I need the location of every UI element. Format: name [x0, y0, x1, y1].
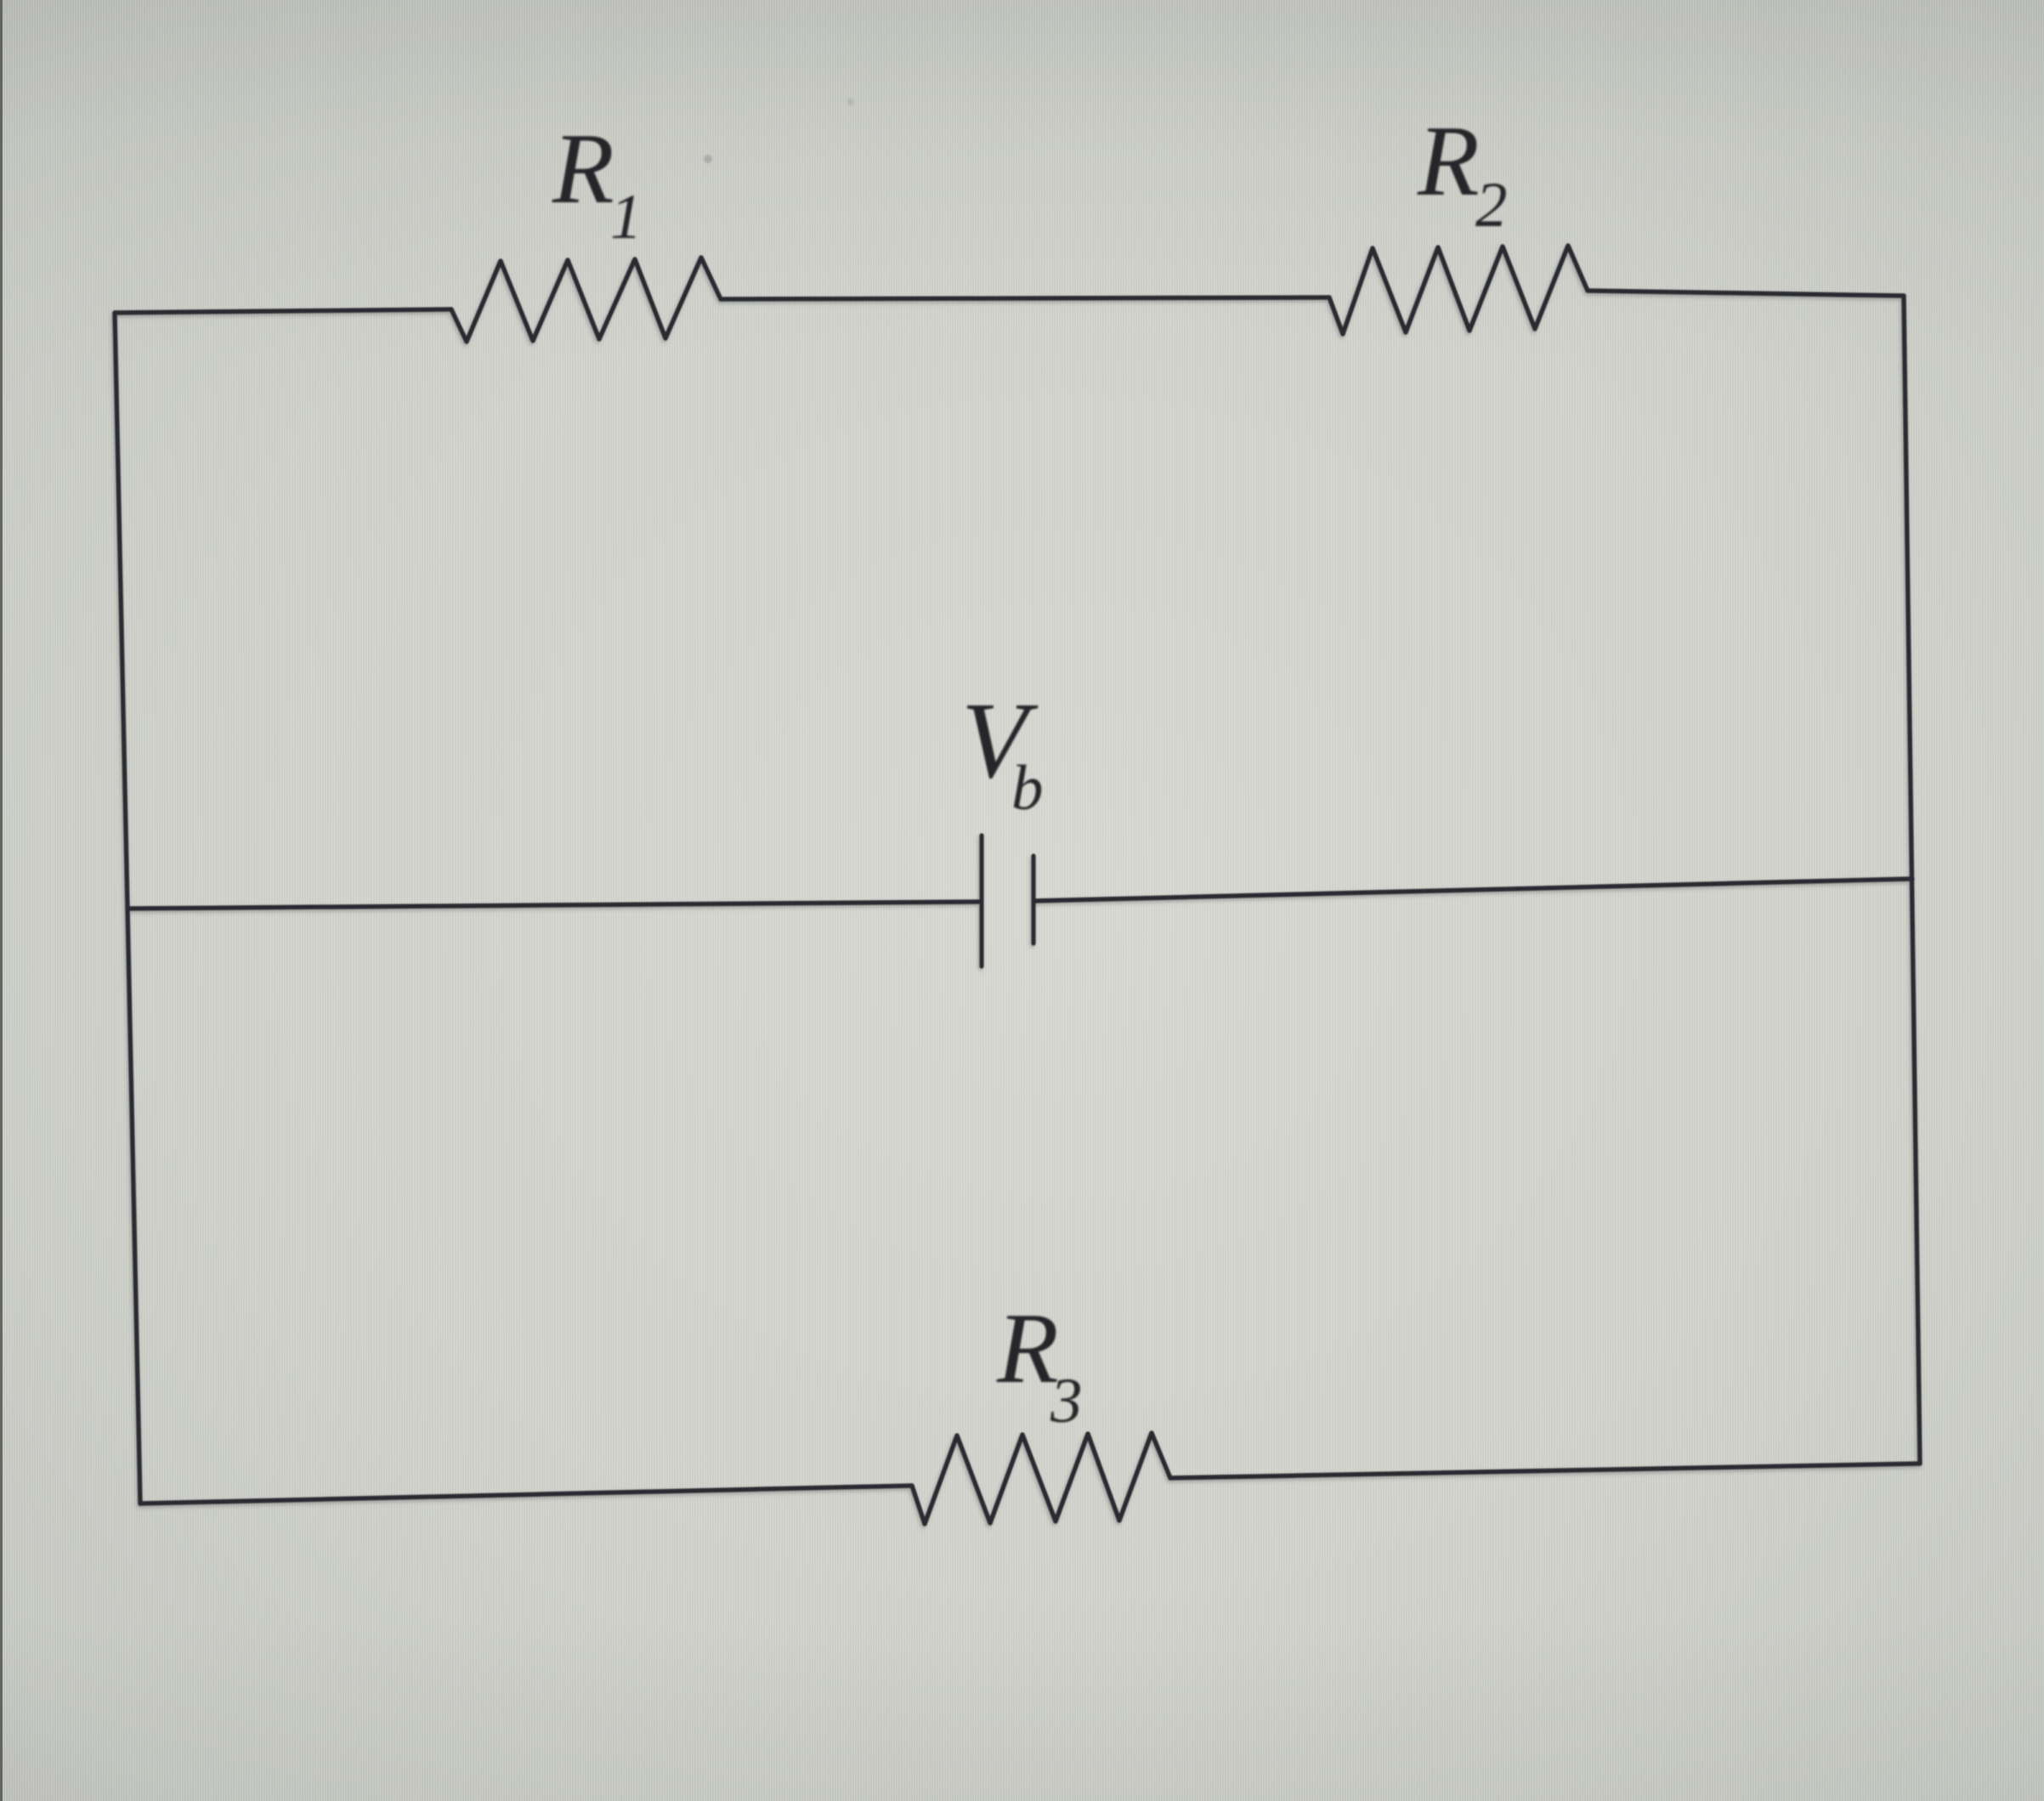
left screen edge line [0, 0, 3, 1801]
svg-text:R: R [996, 1292, 1059, 1404]
wire: top-left segment [115, 309, 451, 313]
resistor R2 [1329, 246, 1588, 334]
resistor R1 [451, 258, 721, 342]
svg-text:3: 3 [1050, 1366, 1083, 1436]
wire: top-middle segment [721, 297, 1329, 299]
battery Vb long plate [979, 835, 983, 966]
wire: right vertical [1904, 296, 1920, 1464]
resistor R3 [912, 1433, 1170, 1524]
dust speck [704, 155, 712, 163]
wire: top-right segment [1588, 291, 1904, 296]
svg-text:R: R [552, 112, 614, 224]
svg-text:R: R [1417, 105, 1480, 217]
wire: middle-left segment [127, 902, 978, 909]
wire: bottom-left segment [140, 1486, 912, 1504]
svg-text:2: 2 [1475, 170, 1508, 241]
battery Vb short plate [1031, 856, 1035, 943]
wire: middle-right segment [1035, 879, 1912, 901]
dust speck [847, 99, 854, 105]
wire: bottom-right segment [1170, 1464, 1920, 1478]
wire: left vertical [115, 313, 140, 1504]
svg-text:1: 1 [610, 182, 643, 252]
svg-text:b: b [1011, 753, 1044, 824]
